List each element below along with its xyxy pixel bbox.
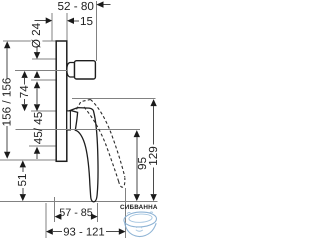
svg-text:45/ 45: 45/ 45: [32, 111, 45, 144]
ext line plate face: [66, 13, 68, 41]
dim 129: [147, 99, 160, 201]
ext line 93-121 right: [125, 188, 127, 238]
svg-text:57 - 85: 57 - 85: [59, 207, 93, 219]
dim 156/156: [1, 41, 14, 159]
dim 93-121: [46, 226, 126, 238]
dim 52-80: [58, 0, 111, 13]
lever handle: [70, 108, 98, 202]
ext line handle base: [16, 129, 141, 131]
dim diameter 24: [30, 22, 43, 78]
lever raised right edge: [91, 100, 125, 178]
ext line lever up top: [72, 98, 156, 100]
baseline: [0, 201, 158, 203]
svg-text:129: 129: [147, 146, 160, 166]
dim 45/45: [32, 81, 45, 159]
lever raised tip: [119, 178, 125, 188]
svg-text:156 / 156: 156 / 156: [1, 78, 14, 127]
svg-text:74: 74: [18, 85, 31, 99]
escutcheon plate: [56, 41, 67, 161]
ext line knob bottom edge: [31, 79, 56, 81]
diverter knob neck: [67, 63, 75, 78]
watermark bathtub logo: [124, 211, 157, 236]
ext line handle top: [31, 110, 56, 112]
svg-text:15: 15: [80, 15, 94, 28]
lever raised left edge: [84, 107, 119, 181]
diverter knob: [75, 61, 96, 79]
ext line plate bottom: [0, 159, 56, 161]
ext line plate top: [3, 40, 56, 42]
ext line 57-85 left: [54, 197, 56, 222]
svg-text:52 - 80: 52 - 80: [58, 0, 95, 13]
ext line knob top: [32, 58, 56, 60]
ext line 93-121 left: [45, 203, 47, 238]
svg-text:Ø 24: Ø 24: [30, 22, 43, 48]
svg-text:93 - 121: 93 - 121: [63, 226, 104, 238]
svg-text:СИБВАННА: СИБВАННА: [120, 204, 158, 211]
dim 74: [18, 71, 31, 111]
dim 95: [134, 130, 150, 201]
ext line 57-85 right: [97, 203, 99, 222]
dim 51: [16, 160, 29, 201]
ext line plate rear: [51, 13, 53, 41]
svg-text:51: 51: [16, 173, 29, 186]
lever raised top: [77, 100, 91, 110]
ext line 45 lower: [29, 145, 56, 147]
lever collar: [67, 111, 71, 130]
dim 15: [35, 15, 94, 28]
ext line knob front: [95, 1, 97, 61]
dim 57-85: [55, 207, 98, 220]
ext line knob axis: [15, 70, 67, 72]
